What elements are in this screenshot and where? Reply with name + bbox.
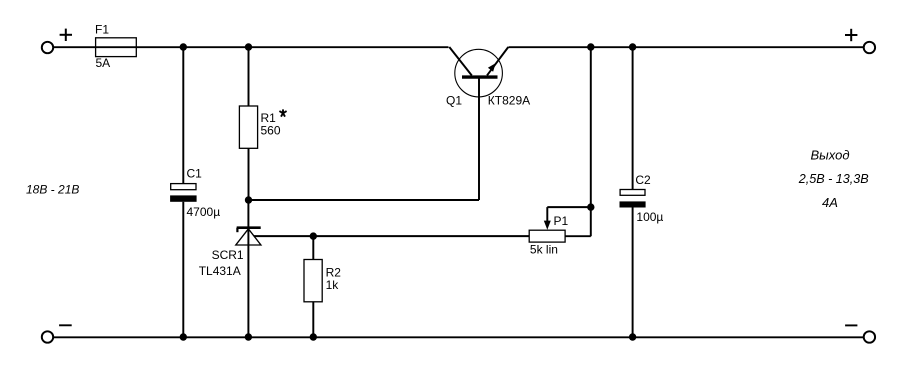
svg-text:TL431A: TL431A: [199, 264, 241, 278]
plus sign input: [60, 29, 72, 41]
resistor R1: [239, 106, 286, 148]
node top rail C2 junction: [629, 43, 636, 50]
svg-text:4700µ: 4700µ: [187, 205, 221, 219]
output label line 1: [811, 148, 850, 163]
node bottom rail SCR1 junction: [245, 333, 252, 340]
node bottom rail R2 junction: [310, 333, 317, 340]
minus sign output: [845, 324, 857, 326]
wire wiper vertical: [546, 207, 548, 222]
wire base node horizontal: [249, 199, 480, 201]
wire output to P1 right terminal: [565, 235, 591, 237]
wire R1 branch bottom: [248, 148, 250, 200]
resistor R2: [304, 260, 341, 302]
node bottom rail C2 junction: [629, 333, 636, 340]
svg-text:C1: C1: [187, 166, 203, 180]
transistor Q1: [446, 47, 530, 108]
minus sign input: [59, 324, 72, 326]
svg-text:5A: 5A: [96, 56, 111, 70]
terminal output minus: [864, 331, 875, 342]
wire output branch vertical: [590, 47, 592, 236]
svg-text:Выход: Выход: [811, 148, 850, 163]
wire SCR1 cathode to anode vertical: [247, 200, 249, 337]
node bottom rail C1 junction: [180, 333, 187, 340]
node top rail C1 junction: [180, 43, 187, 50]
wire R2 top lead: [312, 236, 314, 259]
svg-text:C2: C2: [635, 173, 651, 187]
wire top rail right: [509, 46, 864, 48]
capacitor C1: [170, 166, 220, 219]
input voltage label: [26, 183, 79, 197]
svg-text:SCR1: SCR1: [212, 248, 244, 262]
wire base lead vertical: [478, 77, 480, 200]
output label line 2: [798, 172, 869, 186]
terminal input plus: [42, 42, 53, 53]
wire top rail left: [53, 46, 448, 48]
output label line 3: [822, 195, 838, 210]
svg-text:4А: 4А: [822, 195, 838, 210]
node R2/ref junction: [310, 232, 317, 239]
svg-text:100µ: 100µ: [636, 210, 663, 224]
wire C1 branch bottom: [182, 202, 184, 337]
node top rail R1 junction: [245, 43, 252, 50]
potentiometer P1: [529, 214, 568, 256]
svg-text:P1: P1: [554, 214, 569, 228]
wire C1 branch top: [182, 47, 184, 184]
svg-text:Q1: Q1: [446, 94, 462, 108]
svg-text:2,5В - 13,3В: 2,5В - 13,3В: [798, 172, 869, 186]
shunt regulator SCR1 TL431A: [199, 228, 261, 278]
svg-text:КТ829А: КТ829А: [488, 94, 530, 108]
fuse F1: [95, 23, 136, 70]
svg-text:560: 560: [261, 123, 281, 137]
node wiper junction: [587, 203, 594, 210]
plus sign output: [845, 29, 857, 41]
capacitor C2: [620, 173, 664, 224]
wire R2 bottom lead: [312, 302, 314, 337]
svg-text:1k: 1k: [326, 278, 340, 292]
wire R1 branch top: [248, 47, 250, 106]
wire C2 branch top: [632, 47, 634, 190]
wire reference node horizontal: [254, 235, 529, 237]
wire wiper horizontal: [547, 206, 591, 208]
node top rail output junction: [587, 43, 594, 50]
terminal output plus: [864, 42, 875, 53]
node R1/SCR1/base junction: [245, 196, 252, 203]
svg-text:5k lin: 5k lin: [530, 243, 558, 257]
terminal input minus: [42, 331, 53, 342]
wire bottom rail: [53, 336, 864, 338]
wire C2 branch bottom: [632, 208, 634, 338]
svg-text:F1: F1: [95, 23, 109, 37]
svg-text:18В - 21В: 18В - 21В: [26, 183, 79, 197]
